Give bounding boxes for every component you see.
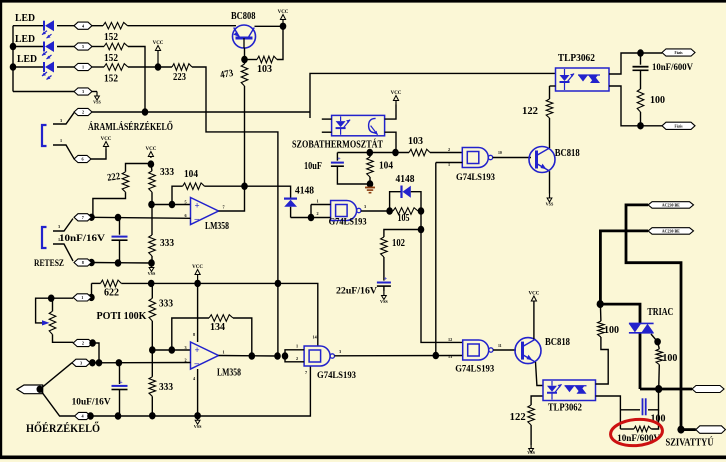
svg-text:HŐÉRZÉKELŐ: HŐÉRZÉKELŐ — [26, 420, 100, 435]
svg-text:223: 223 — [173, 72, 186, 83]
svg-text:G74LS193: G74LS193 — [329, 218, 367, 228]
svg-text:1: 1 — [223, 350, 225, 355]
svg-text:103: 103 — [408, 136, 423, 147]
svg-text:VSS: VSS — [527, 450, 535, 455]
svg-text:13: 13 — [448, 354, 452, 359]
svg-text:AC230 BE: AC230 BE — [662, 229, 680, 234]
svg-text:333: 333 — [159, 382, 173, 393]
svg-text:222: 222 — [107, 171, 121, 184]
svg-text:3: 3 — [364, 204, 366, 209]
svg-text:LED: LED — [15, 13, 35, 24]
svg-text:G74LS193: G74LS193 — [317, 371, 356, 381]
svg-text:2: 2 — [82, 110, 84, 115]
svg-text:100: 100 — [604, 325, 619, 336]
svg-text:12: 12 — [448, 337, 452, 342]
svg-text:4148: 4148 — [396, 174, 415, 185]
svg-text:VSS: VSS — [148, 271, 156, 276]
svg-text:VSS: VSS — [380, 299, 388, 304]
svg-text:+: + — [384, 277, 388, 283]
svg-text:4148: 4148 — [295, 186, 314, 197]
svg-text:RETESZ: RETESZ — [34, 259, 64, 269]
svg-text:333: 333 — [160, 167, 174, 178]
svg-text:152: 152 — [104, 53, 118, 64]
svg-text:6: 6 — [185, 213, 187, 218]
svg-text:ÁRAMLÁSÉRZÉKELŐ: ÁRAMLÁSÉRZÉKELŐ — [88, 121, 173, 133]
svg-text:LM358: LM358 — [205, 221, 229, 232]
svg-text:VSS: VSS — [546, 202, 554, 207]
svg-text:7: 7 — [305, 370, 307, 375]
svg-text:333: 333 — [159, 299, 173, 310]
svg-text:G74LS193: G74LS193 — [456, 173, 495, 183]
svg-text:3: 3 — [60, 118, 62, 123]
svg-text:8: 8 — [193, 332, 195, 337]
svg-text:AC230 BE: AC230 BE — [662, 203, 680, 208]
svg-text:1: 1 — [60, 138, 62, 143]
svg-text:333: 333 — [160, 238, 174, 249]
svg-text:11: 11 — [498, 344, 502, 348]
svg-text:3: 3 — [185, 345, 187, 350]
svg-text:10: 10 — [498, 151, 502, 155]
svg-text:1: 1 — [317, 199, 319, 204]
svg-text:152: 152 — [104, 74, 118, 85]
svg-text:VSS: VSS — [93, 100, 101, 105]
svg-text:2: 2 — [185, 358, 187, 363]
svg-text:100: 100 — [650, 95, 665, 106]
svg-text:G74LS193: G74LS193 — [455, 365, 494, 375]
svg-text:622: 622 — [104, 288, 119, 299]
svg-text:SZIVATTYÚ: SZIVATTYÚ — [666, 437, 714, 449]
svg-text:104: 104 — [379, 161, 393, 172]
svg-text:5: 5 — [82, 44, 84, 49]
svg-text:134: 134 — [210, 322, 225, 333]
svg-text:7: 7 — [82, 215, 84, 220]
svg-text:5: 5 — [185, 200, 187, 205]
svg-text:152: 152 — [104, 32, 118, 43]
svg-text:122: 122 — [522, 106, 538, 117]
svg-text:+: + — [195, 201, 200, 211]
svg-text:BC818: BC818 — [545, 337, 570, 348]
svg-text:102: 102 — [392, 238, 405, 249]
svg-text:TLP3062: TLP3062 — [558, 53, 595, 64]
svg-text:22uF/16V: 22uF/16V — [336, 287, 377, 297]
svg-text:1: 1 — [82, 65, 84, 70]
svg-text:Fázis: Fázis — [675, 124, 684, 128]
svg-text:6: 6 — [81, 157, 83, 162]
svg-text:8: 8 — [82, 260, 84, 265]
svg-text:2: 2 — [448, 147, 450, 152]
svg-text:LED: LED — [17, 54, 37, 65]
svg-text:2: 2 — [296, 356, 298, 361]
svg-text:1: 1 — [58, 237, 60, 242]
svg-text:2: 2 — [317, 211, 319, 216]
svg-text:+: + — [337, 157, 341, 163]
svg-text:TRIAC: TRIAC — [647, 307, 673, 318]
svg-text:10nF/16V: 10nF/16V — [59, 233, 106, 243]
svg-text:3: 3 — [58, 224, 60, 229]
svg-text:122: 122 — [510, 412, 526, 423]
svg-text:2: 2 — [82, 341, 84, 346]
svg-text:BC818: BC818 — [555, 148, 580, 159]
svg-text:SZOBATHERMOSZTÁT: SZOBATHERMOSZTÁT — [292, 139, 383, 151]
svg-text:1: 1 — [296, 344, 298, 349]
svg-text:7: 7 — [223, 205, 225, 210]
svg-text:10uF: 10uF — [304, 161, 322, 172]
svg-text:104: 104 — [184, 169, 198, 180]
svg-text:473: 473 — [219, 68, 234, 81]
svg-text:3: 3 — [82, 89, 84, 94]
svg-text:3: 3 — [80, 360, 82, 365]
svg-text:Fázis: Fázis — [675, 51, 684, 55]
svg-text:LM358: LM358 — [217, 368, 241, 379]
svg-text:1: 1 — [81, 295, 83, 300]
svg-text:–: – — [194, 214, 200, 224]
svg-text:–: – — [194, 358, 200, 368]
svg-text:BC808: BC808 — [231, 11, 256, 22]
svg-text:VSS: VSS — [194, 424, 202, 429]
svg-text:10nF/600V: 10nF/600V — [652, 63, 693, 73]
svg-text:10uF/16V: 10uF/16V — [72, 398, 111, 408]
svg-text:103: 103 — [257, 64, 272, 75]
svg-text:POTI 100K: POTI 100K — [97, 311, 147, 322]
svg-text:+: + — [119, 380, 123, 386]
svg-text:100: 100 — [662, 353, 677, 364]
svg-text:105: 105 — [398, 213, 410, 224]
svg-text:+: + — [195, 345, 200, 355]
svg-text:TLP3062: TLP3062 — [548, 403, 582, 414]
svg-text:3: 3 — [339, 349, 341, 354]
svg-text:LED: LED — [15, 34, 35, 45]
